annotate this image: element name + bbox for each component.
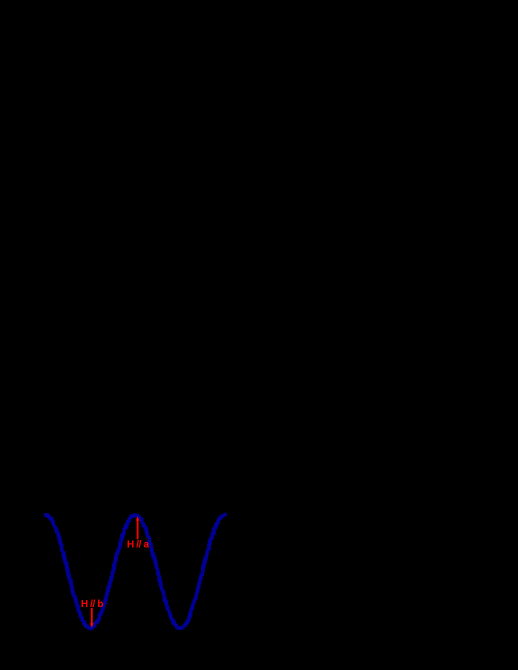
red annotation line at peak (H parallel a): [136, 516, 140, 539]
red annotation line at valley (H parallel b): [90, 608, 94, 628]
blue data curve (dotted cosine, 2 periods): [44, 513, 227, 630]
svg-text:H // a: H // a: [127, 539, 150, 550]
